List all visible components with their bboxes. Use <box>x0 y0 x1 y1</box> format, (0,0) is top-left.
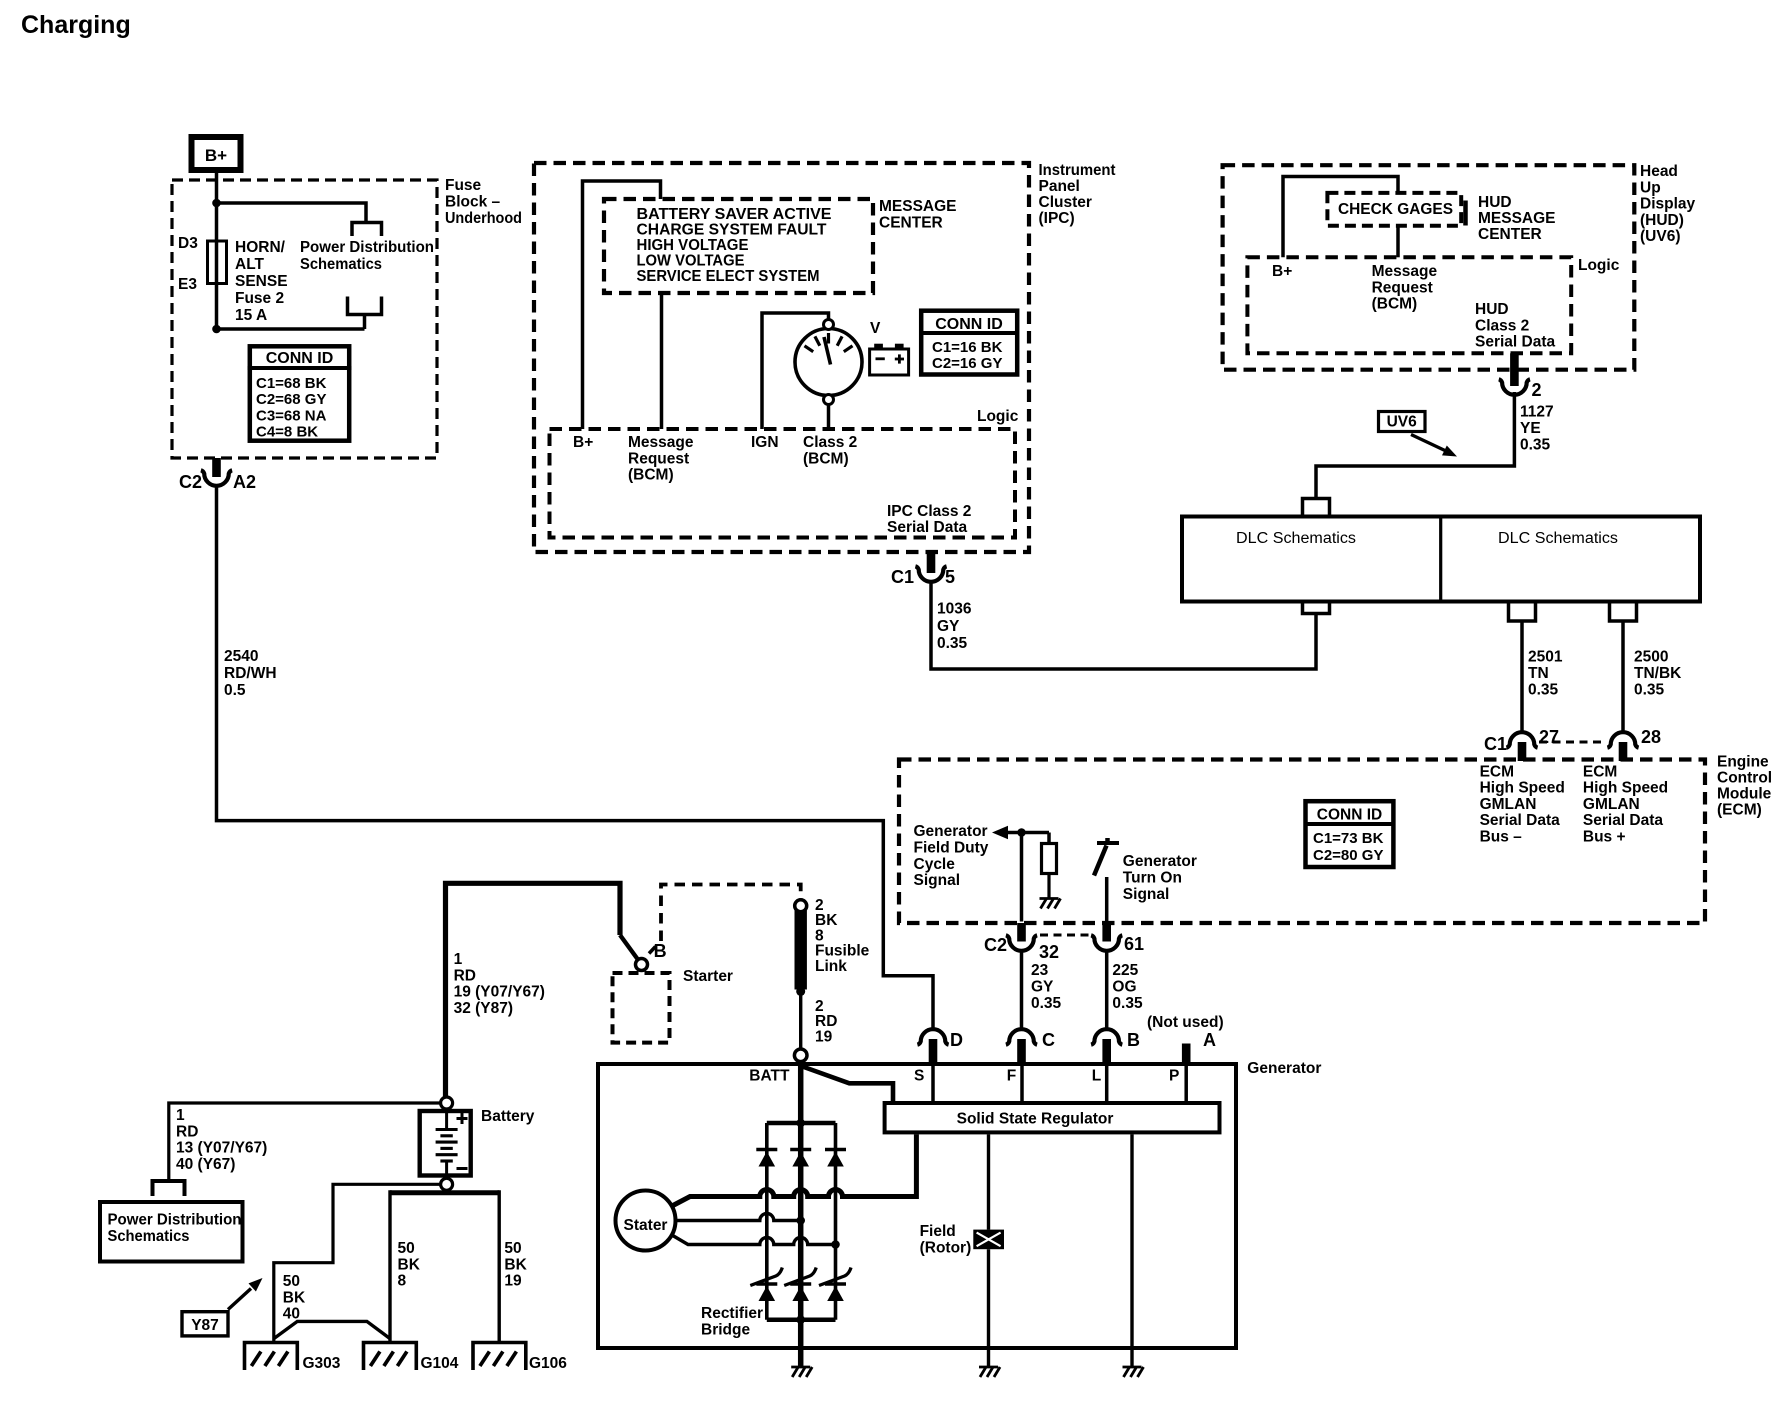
wire 1 RD to power distribution <box>169 1103 441 1181</box>
wire 1 RD battery positive to starter B <box>446 883 621 1097</box>
module box Generator <box>598 1064 1236 1348</box>
connector pin C (generator F) <box>1006 1029 1037 1045</box>
field rotor winding <box>973 1230 1004 1250</box>
power symbol B+ (fuse block) <box>192 137 241 170</box>
svg-text:Block –: Block – <box>445 194 501 211</box>
svg-text:0.35: 0.35 <box>1528 682 1559 699</box>
svg-text:GMLAN: GMLAN <box>1583 796 1640 813</box>
svg-text:SENSE: SENSE <box>235 273 288 290</box>
svg-text:Schematics: Schematics <box>108 1228 190 1245</box>
rectifier bridge bus top <box>767 1121 836 1126</box>
svg-text:BK: BK <box>504 1256 527 1273</box>
connector staple DLC bottom-left (to IPC wire) <box>1303 602 1330 614</box>
svg-text:MESSAGE: MESSAGE <box>879 198 957 215</box>
module box DLC Schematics (left) <box>1182 517 1700 602</box>
fusible link terminal (top) <box>795 900 807 912</box>
svg-text:HUD: HUD <box>1475 301 1509 318</box>
svg-text:P: P <box>1169 1068 1179 1085</box>
connector C1 pin 27 (ECM top) <box>1506 732 1537 748</box>
svg-text:0.35: 0.35 <box>1520 437 1551 454</box>
node battery negative terminal <box>441 1178 453 1190</box>
meter voltmeter gauge (IPC) <box>795 320 862 405</box>
svg-text:D: D <box>950 1030 963 1050</box>
connector staple DLC bottom (bus +) <box>1610 602 1637 622</box>
svg-text:L: L <box>1092 1068 1101 1085</box>
svg-text:Bus +: Bus + <box>1583 828 1626 845</box>
wire BATT tap to regulator <box>803 1067 894 1102</box>
svg-text:50: 50 <box>398 1240 415 1257</box>
svg-text:225: 225 <box>1112 962 1138 979</box>
display box MESSAGE CENTER (IPC) <box>604 199 873 293</box>
svg-text:2500: 2500 <box>1634 649 1668 666</box>
svg-text:CONN ID: CONN ID <box>266 350 334 367</box>
svg-text:0.35: 0.35 <box>937 635 968 652</box>
svg-text:Engine: Engine <box>1717 754 1769 771</box>
logic box IPC <box>550 429 1016 538</box>
svg-text:CHARGE SYSTEM FAULT: CHARGE SYSTEM FAULT <box>637 222 828 239</box>
svg-text:B+: B+ <box>1272 263 1292 280</box>
svg-text:GMLAN: GMLAN <box>1480 796 1537 813</box>
svg-text:2501: 2501 <box>1528 649 1563 666</box>
wire terminal P to regulator <box>1184 1063 1188 1101</box>
svg-text:B+: B+ <box>573 434 593 451</box>
svg-text:OG: OG <box>1112 979 1136 996</box>
module box Instrument Panel Cluster (IPC) <box>534 163 1029 552</box>
regulator box Solid State Regulator <box>885 1103 1220 1132</box>
svg-text:TN/BK: TN/BK <box>1634 665 1682 682</box>
module box Starter <box>613 973 670 1043</box>
svg-text:CENTER: CENTER <box>1478 226 1542 243</box>
wire field duty to C2 pin 32 <box>1020 833 1024 922</box>
svg-text:(BCM): (BCM) <box>628 467 674 484</box>
svg-text:Link: Link <box>815 958 847 975</box>
wire terminal L to regulator <box>1105 1063 1109 1101</box>
table CONN ID (ECM) <box>1306 801 1394 867</box>
svg-text:D3: D3 <box>178 235 198 252</box>
svg-text:B: B <box>654 941 667 961</box>
node junction field duty wire <box>1017 828 1026 837</box>
svg-text:HUD: HUD <box>1478 194 1512 211</box>
ground generator BATT leg <box>791 1366 810 1369</box>
svg-text:MESSAGE: MESSAGE <box>1478 210 1556 227</box>
svg-text:ECM: ECM <box>1583 764 1617 781</box>
svg-text:A2: A2 <box>233 472 256 492</box>
arrow Y87 callout <box>228 1289 251 1310</box>
module box Head Up Display (HUD) <box>1223 165 1635 370</box>
connector C2 pin 32 (ECM bottom) <box>1017 923 1026 942</box>
callout box Y87 <box>182 1312 228 1336</box>
wire field to ground <box>987 1249 990 1366</box>
wire BATT main feed through generator <box>798 1062 804 1367</box>
svg-text:BATT: BATT <box>749 1068 790 1085</box>
svg-text:B: B <box>1127 1030 1140 1050</box>
wire 2 RD 19 to generator BATT <box>799 992 802 1050</box>
svg-text:CENTER: CENTER <box>879 215 943 232</box>
svg-text:LOW VOLTAGE: LOW VOLTAGE <box>637 253 745 270</box>
svg-text:1: 1 <box>454 951 463 968</box>
wire dashed connector link 32-61 <box>1040 934 1089 937</box>
svg-text:Serial Data: Serial Data <box>1475 334 1556 351</box>
svg-text:IGN: IGN <box>751 434 779 451</box>
wire stator phase 2 <box>676 1214 801 1221</box>
svg-text:15 A: 15 A <box>235 307 267 324</box>
svg-text:Class 2: Class 2 <box>803 434 857 451</box>
svg-text:Logic: Logic <box>977 408 1019 425</box>
svg-text:HIGH VOLTAGE: HIGH VOLTAGE <box>637 237 749 254</box>
svg-text:CONN ID: CONN ID <box>1317 807 1382 824</box>
svg-text:Schematics: Schematics <box>300 256 382 273</box>
svg-text:(BCM): (BCM) <box>803 450 849 467</box>
svg-text:Control: Control <box>1717 770 1772 787</box>
connector pin 61 (ECM bottom) <box>1102 923 1111 942</box>
rectifier bridge right leg <box>834 1123 838 1320</box>
svg-text:Panel: Panel <box>1039 178 1080 195</box>
arrow generator field duty cycle signal <box>992 826 1008 840</box>
svg-text:Generator: Generator <box>1247 1060 1321 1077</box>
fusible link 2 BK 8 <box>795 911 807 990</box>
separator bar HUD message center <box>1463 201 1468 226</box>
table CONN ID (IPC) <box>921 311 1017 375</box>
svg-text:50: 50 <box>283 1273 300 1290</box>
svg-text:E3: E3 <box>178 276 197 293</box>
svg-text:BK: BK <box>283 1289 306 1306</box>
ground ECM internal <box>1040 897 1059 900</box>
switch generator turn on signal <box>1097 841 1119 845</box>
fuse F2 HORN/ALT SENSE 15A <box>215 241 219 329</box>
wire B+ to message center (IPC) <box>583 181 661 429</box>
connector staple to Power Distribution Schematics (battery) <box>153 1181 185 1196</box>
wire bus battery negative to G104 G106 <box>390 1190 499 1195</box>
svg-text:UV6: UV6 <box>1387 414 1418 431</box>
svg-text:Solid State Regulator: Solid State Regulator <box>957 1111 1114 1128</box>
node junction above fuse <box>212 199 221 208</box>
svg-text:Request: Request <box>1372 279 1433 296</box>
svg-text:Power Distribution: Power Distribution <box>300 239 434 256</box>
svg-text:C1=73 BK: C1=73 BK <box>1313 830 1384 847</box>
svg-text:C2=68 GY: C2=68 GY <box>256 391 326 408</box>
svg-text:C1: C1 <box>891 567 914 587</box>
svg-text:Class 2: Class 2 <box>1475 317 1529 334</box>
svg-text:GY: GY <box>1031 979 1054 996</box>
terminal BATT generator (circle) <box>794 1049 807 1062</box>
svg-text:S: S <box>914 1068 924 1085</box>
svg-text:Bus –: Bus – <box>1480 828 1523 845</box>
wire stator phase 1 (thick, to regulator) <box>671 1134 916 1206</box>
resistor pull (ECM internal) <box>1047 833 1051 844</box>
svg-text:Y87: Y87 <box>191 1317 219 1334</box>
node battery positive terminal <box>441 1097 453 1109</box>
svg-text:61: 61 <box>1124 934 1144 954</box>
svg-text:Serial Data: Serial Data <box>887 519 968 536</box>
svg-text:Rectifier: Rectifier <box>701 1305 763 1322</box>
svg-text:1: 1 <box>176 1107 185 1124</box>
diode D2 (top mid) <box>790 1148 811 1151</box>
wire IGN to voltmeter <box>762 313 829 429</box>
connector pin A (generator P, not used) <box>1182 1044 1191 1064</box>
svg-text:Serial Data: Serial Data <box>1583 812 1664 829</box>
node rectifier bottom bus junction <box>796 1315 805 1324</box>
svg-text:Display: Display <box>1640 196 1696 213</box>
wire regulator to ground (right) <box>1130 1134 1133 1366</box>
svg-text:1036: 1036 <box>937 601 972 618</box>
svg-text:Serial Data: Serial Data <box>1480 812 1561 829</box>
svg-text:0.35: 0.35 <box>1112 995 1143 1012</box>
wire 23 GY 0.35 (ECM to generator F) <box>1020 949 1024 1030</box>
svg-text:C1=68 BK: C1=68 BK <box>256 375 327 392</box>
wire dashed connector link 27-28 <box>1539 741 1606 744</box>
wire 225 OG 0.35 (ECM to generator L) <box>1105 949 1109 1030</box>
svg-text:SERVICE ELECT SYSTEM: SERVICE ELECT SYSTEM <box>637 268 820 285</box>
wire 1127 YE 0.35 (HUD to DLC) <box>1316 392 1514 499</box>
svg-text:CONN ID: CONN ID <box>935 316 1003 333</box>
svg-text:BK: BK <box>398 1256 421 1273</box>
svg-text:(HUD): (HUD) <box>1640 212 1684 229</box>
svg-text:Message: Message <box>1372 263 1438 280</box>
svg-text:32: 32 <box>1039 942 1059 962</box>
svg-text:Instrument: Instrument <box>1039 162 1116 179</box>
svg-text:Battery: Battery <box>481 1108 535 1125</box>
svg-text:(Rotor): (Rotor) <box>920 1240 972 1257</box>
svg-text:Field: Field <box>920 1223 956 1240</box>
svg-text:B+: B+ <box>205 146 227 165</box>
ground generator field leg <box>979 1366 998 1369</box>
svg-text:Generator: Generator <box>1123 853 1197 870</box>
wire branch to power distribution (out) <box>217 203 367 223</box>
svg-text:Starter: Starter <box>683 968 733 985</box>
node rectifier top bus junction <box>796 1119 805 1128</box>
connector pin 28 (ECM top) <box>1607 732 1638 748</box>
connector staple return from Power Distribution Schematics <box>348 297 382 315</box>
diode D1 (top left) <box>756 1148 777 1151</box>
display box CHECK GAGES (HUD) <box>1327 193 1461 226</box>
callout box UV6 <box>1379 412 1426 432</box>
svg-text:DLC Schematics: DLC Schematics <box>1236 530 1356 547</box>
svg-text:Up: Up <box>1640 179 1661 196</box>
wire message request BCM (HUD) <box>1396 226 1400 257</box>
phase crossing mark right <box>819 1268 851 1286</box>
svg-text:RD: RD <box>454 967 476 984</box>
svg-text:G104: G104 <box>421 1355 459 1372</box>
svg-text:0.35: 0.35 <box>1031 995 1062 1012</box>
svg-text:(ECM): (ECM) <box>1717 802 1762 819</box>
battery B1 <box>420 1109 471 1178</box>
arrow UV6 callout <box>1411 435 1446 452</box>
svg-text:32 (Y87): 32 (Y87) <box>454 1000 513 1017</box>
connector pin D (generator S) <box>917 1029 948 1044</box>
svg-text:HORN/: HORN/ <box>235 239 286 256</box>
battery icon V (IPC) <box>870 320 909 375</box>
svg-text:A: A <box>1203 1030 1216 1050</box>
svg-text:Cycle: Cycle <box>914 856 956 873</box>
svg-text:IPC Class 2: IPC Class 2 <box>887 503 971 520</box>
ground generator regulator leg <box>1123 1366 1142 1369</box>
ground G303 <box>245 1343 298 1371</box>
svg-text:19 (Y07/Y67): 19 (Y07/Y67) <box>454 984 545 1001</box>
svg-text:C1=16 BK: C1=16 BK <box>932 339 1003 356</box>
rectifier bridge bus bottom <box>767 1317 836 1322</box>
wire 50 BK 19 to G106 <box>498 1190 501 1342</box>
svg-text:Logic: Logic <box>1578 257 1620 274</box>
wire 2500 TN/BK 0.35 <box>1621 621 1625 732</box>
svg-text:CHECK GAGES: CHECK GAGES <box>1338 201 1453 218</box>
wire B+ to check gages (HUD) <box>1283 177 1398 258</box>
svg-text:19: 19 <box>504 1273 522 1290</box>
connector staple to Power Distribution Schematics (out) <box>352 223 382 237</box>
wire message request BCM (IPC) <box>660 293 664 429</box>
svg-text:50: 50 <box>504 1240 521 1257</box>
svg-text:Cluster: Cluster <box>1039 194 1092 211</box>
svg-text:Signal: Signal <box>914 872 961 889</box>
module box Engine Control Module (ECM) <box>899 760 1705 924</box>
svg-text:C3=68 NA: C3=68 NA <box>256 407 327 424</box>
svg-text:C2=80 GY: C2=80 GY <box>1313 847 1383 864</box>
svg-text:13 (Y07/Y67): 13 (Y07/Y67) <box>176 1140 267 1157</box>
svg-text:Request: Request <box>628 450 689 467</box>
svg-text:Charging: Charging <box>21 11 131 39</box>
svg-text:8: 8 <box>398 1273 407 1290</box>
wire return branch to fuse output node <box>217 327 365 331</box>
diode D4 (bottom left) <box>756 1282 777 1285</box>
svg-text:ECM: ECM <box>1480 764 1514 781</box>
svg-text:Message: Message <box>628 434 694 451</box>
svg-text:Turn On: Turn On <box>1123 869 1182 886</box>
svg-text:2: 2 <box>1532 380 1542 400</box>
svg-text:TN: TN <box>1528 665 1549 682</box>
connector C2 pin A2 (fuse block bottom) <box>212 458 221 477</box>
wire 2540 RD/WH 0.5 (fuse block to generator S) <box>217 484 934 1030</box>
wire terminal S to regulator <box>931 1063 935 1101</box>
svg-text:YE: YE <box>1520 420 1541 437</box>
svg-text:GY: GY <box>937 618 960 635</box>
svg-text:1127: 1127 <box>1520 404 1554 421</box>
table CONN ID (fuse block) <box>250 346 349 440</box>
phase crossing mark mid <box>784 1268 816 1286</box>
svg-text:0.5: 0.5 <box>224 682 246 699</box>
module box Power Distribution Schematics <box>100 1202 243 1262</box>
svg-text:(IPC): (IPC) <box>1039 210 1075 227</box>
svg-text:23: 23 <box>1031 962 1049 979</box>
svg-text:High Speed: High Speed <box>1480 780 1565 797</box>
phase crossing mark left <box>750 1268 782 1286</box>
wire 2501 TN 0.35 <box>1520 621 1524 732</box>
svg-text:27: 27 <box>1539 727 1559 747</box>
svg-text:Generator: Generator <box>914 823 988 840</box>
svg-text:(BCM): (BCM) <box>1372 296 1418 313</box>
module box Fuse Block - Underhood <box>172 180 437 458</box>
wire 50 BK 40 battery negative to G303 <box>274 1184 441 1342</box>
svg-text:C4=8 BK: C4=8 BK <box>256 424 318 441</box>
svg-text:28: 28 <box>1641 727 1661 747</box>
diode D6 (bottom right) <box>825 1282 846 1285</box>
svg-text:(Not used): (Not used) <box>1147 1014 1224 1031</box>
svg-text:19: 19 <box>815 1028 833 1045</box>
svg-text:Bridge: Bridge <box>701 1322 750 1339</box>
svg-text:5: 5 <box>945 567 955 587</box>
svg-text:F: F <box>1007 1068 1016 1085</box>
svg-text:Stater: Stater <box>624 1217 668 1234</box>
svg-text:C1: C1 <box>1484 734 1507 754</box>
svg-text:Signal: Signal <box>1123 886 1170 903</box>
svg-text:G303: G303 <box>303 1355 341 1372</box>
svg-text:C: C <box>1042 1030 1055 1050</box>
svg-text:C2: C2 <box>984 935 1007 955</box>
svg-text:Power Distribution: Power Distribution <box>108 1212 242 1229</box>
terminal B starter <box>636 959 648 971</box>
svg-text:Underhood: Underhood <box>445 210 522 227</box>
svg-text:RD: RD <box>176 1123 198 1140</box>
svg-text:0.35: 0.35 <box>1634 682 1665 699</box>
ground G106 <box>473 1343 526 1371</box>
diode D5 (bottom mid) <box>790 1282 811 1285</box>
svg-text:DLC Schematics: DLC Schematics <box>1498 530 1618 547</box>
connector pin B (generator L) <box>1091 1029 1122 1044</box>
wire regulator to field <box>987 1134 990 1229</box>
svg-text:C2: C2 <box>179 472 202 492</box>
node junction below fuse <box>212 325 221 334</box>
wire 50 BK 8 to G104 <box>388 1190 391 1342</box>
wire dashed starter B to fusible link <box>649 947 656 954</box>
svg-text:Head: Head <box>1640 163 1678 180</box>
svg-text:Field Duty: Field Duty <box>914 839 989 856</box>
stator winding circle <box>616 1191 676 1251</box>
svg-text:RD/WH: RD/WH <box>224 665 277 682</box>
svg-text:Fuse: Fuse <box>445 177 482 194</box>
svg-text:C2=16 GY: C2=16 GY <box>932 355 1002 372</box>
diode D3 (top right) <box>825 1148 846 1151</box>
svg-text:Fuse 2: Fuse 2 <box>235 290 284 307</box>
wire bridge G303 to G104 <box>274 1321 390 1338</box>
svg-text:BATTERY SAVER ACTIVE: BATTERY SAVER ACTIVE <box>637 206 832 223</box>
svg-text:ALT: ALT <box>235 256 265 273</box>
rectifier bridge left leg <box>765 1123 769 1320</box>
svg-text:40 (Y67): 40 (Y67) <box>176 1156 235 1173</box>
svg-text:V: V <box>870 320 881 337</box>
svg-text:High Speed: High Speed <box>1583 780 1668 797</box>
logic box HUD <box>1247 257 1571 353</box>
connector C1 pin 5 (IPC bottom) <box>927 552 936 573</box>
wire B+ feed into fuse block <box>215 173 219 241</box>
wire terminal F to regulator <box>1020 1063 1024 1101</box>
svg-text:Module: Module <box>1717 786 1772 803</box>
ground G104 <box>364 1343 417 1371</box>
connector staple DLC bottom (bus -) <box>1509 602 1536 622</box>
connector staple DLC top (from HUD wire) <box>1303 499 1330 517</box>
wire stator phase 3 <box>671 1235 836 1245</box>
wire voltmeter to Class 2 logic <box>827 405 831 430</box>
svg-text:(UV6): (UV6) <box>1640 228 1680 245</box>
wire 1036 GY 0.35 (IPC to DLC) <box>931 580 1316 669</box>
connector pin 2 (HUD bottom) <box>1510 353 1519 386</box>
svg-text:G106: G106 <box>529 1355 567 1372</box>
svg-text:2540: 2540 <box>224 648 258 665</box>
